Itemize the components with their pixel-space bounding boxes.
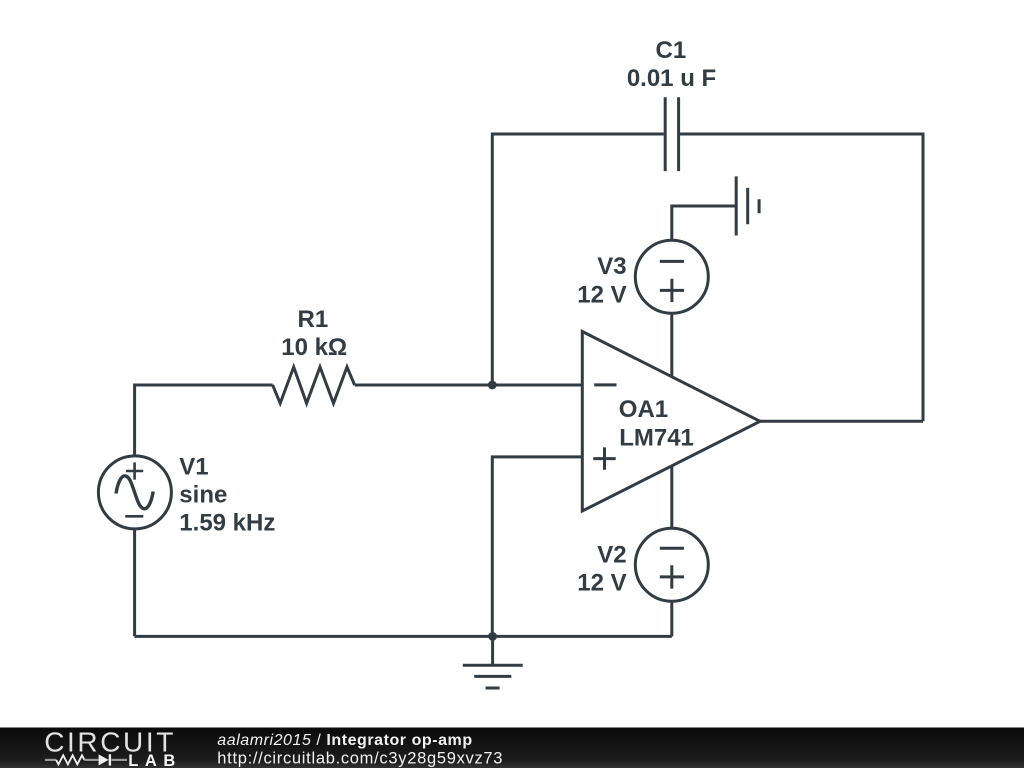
V3 minus symbol [660, 260, 684, 263]
svg-text:V2: V2 [597, 541, 626, 568]
svg-text:1.59 kHz: 1.59 kHz [179, 509, 275, 536]
svg-text:10 kΩ: 10 kΩ [281, 334, 347, 361]
footer logo resistor-diode glyph [45, 754, 127, 765]
V2 minus symbol [660, 547, 684, 550]
wire V3 bottom to op-amp [670, 313, 673, 378]
wire V2 top to op-amp [670, 466, 673, 528]
op-amp plus symbol [593, 447, 615, 469]
op-amp minus symbol [594, 383, 616, 386]
svg-text:http://circuitlab.com/c3y28g59: http://circuitlab.com/c3y28g59xvz73 [217, 749, 503, 767]
svg-text:LAB: LAB [128, 752, 182, 768]
svg-text:12 V: 12 V [577, 570, 626, 597]
source V1 circle [98, 456, 171, 529]
wire R1 to node A [355, 384, 493, 387]
wire top left (node to C1) [492, 134, 664, 385]
resistor R1 [273, 367, 355, 403]
wire V2 bottom [670, 601, 673, 636]
svg-text:C1: C1 [656, 37, 687, 64]
svg-text:LM741: LM741 [619, 424, 694, 451]
ground (top right, rotated) [736, 176, 759, 235]
ground (bottom) [463, 636, 523, 688]
V1 minus symbol [125, 515, 143, 518]
wire bottom row [135, 635, 672, 638]
svg-text:0.01 u F: 0.01 u F [627, 65, 716, 92]
wire node A to op-amp minus input [492, 384, 582, 387]
wire V1 bottom [133, 529, 136, 637]
svg-text:V1: V1 [179, 454, 208, 481]
wire top right (C1 to right corner) [680, 134, 923, 421]
wire op-amp plus input to ground node [492, 457, 582, 637]
capacitor C1 [665, 97, 678, 171]
svg-text:sine: sine [179, 482, 227, 509]
svg-text:12 V: 12 V [577, 282, 626, 309]
op-amp OA1 triangle [582, 332, 760, 512]
wire V3 top to ground [672, 206, 736, 240]
ground node junction dot [488, 632, 497, 641]
svg-text:V3: V3 [597, 253, 626, 280]
footer bar [0, 728, 1024, 768]
source V3 circle [635, 240, 708, 313]
V3 plus symbol [660, 279, 684, 302]
V1 sine symbol [116, 476, 153, 509]
svg-text:R1: R1 [298, 306, 329, 333]
wire output (op-amp apex to right vertical) [760, 420, 923, 423]
footer logo diode triangle [99, 754, 109, 765]
source V2 circle [635, 528, 708, 601]
V2 plus symbol [660, 565, 684, 588]
node A junction dot [488, 381, 497, 390]
wire V1 to R1 row [135, 385, 273, 456]
svg-text:aalamri2015 / Integrator op-am: aalamri2015 / Integrator op-amp [217, 732, 472, 749]
V1 plus symbol [126, 462, 143, 479]
svg-text:OA1: OA1 [619, 396, 668, 423]
